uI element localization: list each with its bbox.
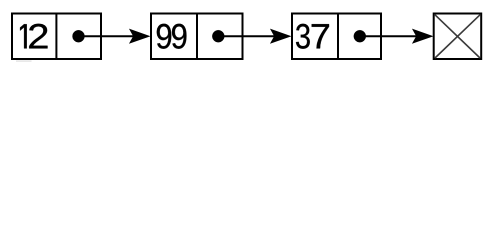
arrowhead 2 [271,29,291,43]
node 3 box [292,14,381,60]
wire arrow 3 line [360,35,420,37]
null X diagonal 2 [435,15,480,58]
digit 1 of value 12 [20,24,27,48]
node 1 pointer dot [73,30,85,42]
node 3 pointer dot [354,30,366,42]
node 2 box [151,14,243,60]
wire arrow 1 line [79,35,137,37]
digit 7 of value 37 [312,24,329,48]
arrowhead 3 [413,29,433,43]
arrowhead 1 [130,29,150,43]
digit 9b of value 99 [172,24,186,49]
digit 3 of value 37 [296,24,310,49]
digit 2 of value 12 [29,24,47,49]
node 1 divider [55,13,57,60]
null box [434,14,482,60]
faint artifact dash bottom-left [16,60,32,62]
node 2 pointer dot [212,30,224,42]
null X diagonal 1 [435,15,480,58]
node 1 box [12,14,101,60]
wire arrow 2 line [220,35,278,37]
linked list diagram [0,0,489,69]
node 3 divider [337,13,339,60]
digit 9a of value 99 [157,24,171,49]
node 2 divider [196,13,198,60]
